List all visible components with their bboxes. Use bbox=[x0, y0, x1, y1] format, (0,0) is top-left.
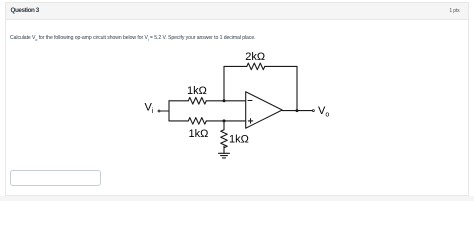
wire feedback right vertical bbox=[296, 66, 298, 110]
wire feedback top left bbox=[224, 65, 247, 67]
junction dot output bbox=[296, 109, 299, 112]
wire bottom branch right bbox=[206, 120, 245, 122]
junction dot bottom branch bbox=[223, 119, 226, 122]
wire bottom branch left bbox=[169, 120, 188, 122]
resistor R1 1k top zigzag bbox=[188, 98, 206, 105]
resistor R4 1k vertical zigzag bbox=[221, 130, 228, 148]
wire feedback left vertical bbox=[223, 66, 225, 100]
wire top branch left bbox=[169, 100, 188, 102]
svg-text:1kΩ: 1kΩ bbox=[189, 128, 209, 140]
node Vi terminal bbox=[158, 110, 160, 112]
svg-text:2kΩ: 2kΩ bbox=[245, 51, 265, 63]
question card bbox=[5, 2, 469, 196]
points label bbox=[449, 8, 459, 14]
answer input box bbox=[10, 170, 101, 186]
node Vo terminal bbox=[312, 110, 314, 112]
svg-text:Vo: Vo bbox=[318, 105, 329, 119]
wire top branch right bbox=[206, 100, 245, 102]
resistor R3 2k zigzag bbox=[247, 63, 265, 70]
resistor R2 1k bottom zigzag bbox=[188, 118, 206, 125]
bottom page strip bbox=[0, 196, 474, 201]
wire Vi stub bbox=[160, 110, 169, 112]
ground symbol bbox=[219, 153, 230, 158]
question text bbox=[10, 35, 255, 42]
op-amp plus sign bbox=[248, 119, 252, 123]
header title bbox=[11, 7, 39, 14]
svg-text:1kΩ: 1kΩ bbox=[187, 85, 207, 97]
svg-text:Vi: Vi bbox=[145, 102, 154, 116]
wire output bbox=[282, 110, 312, 112]
question header bar bbox=[5, 2, 469, 20]
wire input trunk vertical bbox=[168, 101, 170, 121]
svg-text:1kΩ: 1kΩ bbox=[229, 133, 249, 145]
wire resistor to ground bbox=[223, 146, 225, 153]
wire feedback top right bbox=[265, 65, 297, 67]
junction dot top branch bbox=[223, 99, 226, 102]
op-amp U1 triangle bbox=[246, 92, 283, 129]
op-amp minus sign bbox=[248, 100, 252, 102]
wire to ground resistor bbox=[223, 121, 225, 130]
